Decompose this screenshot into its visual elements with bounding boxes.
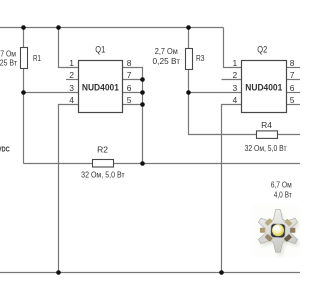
op-amp U2 / IC Q2 NUD4001 box	[242, 61, 287, 113]
shadow	[261, 213, 300, 256]
node Q2 pin4 to bottom rail	[219, 270, 224, 275]
svg-text:5: 5	[290, 95, 295, 105]
wire Q1 pin2 stub	[66, 79, 79, 81]
wire R1 bottom lead down to mid rail	[23, 69, 25, 164]
svg-text:NUD4001: NUD4001	[82, 83, 119, 93]
wire mid rail left of R2	[24, 163, 93, 165]
wire Q1 pin5	[123, 104, 143, 106]
svg-text:8: 8	[127, 58, 132, 68]
wire R4 right lead	[278, 134, 301, 136]
wire Q1 pin8 corner to common vertical	[123, 68, 143, 164]
LED dome	[272, 224, 284, 236]
LED package	[271, 224, 285, 238]
svg-text:3: 3	[232, 83, 237, 93]
svg-text:8: 8	[290, 58, 295, 68]
svg-text:3: 3	[69, 83, 74, 93]
wire R3 top lead	[188, 28, 190, 49]
node Q1 pin5	[140, 102, 145, 107]
svg-text:R3: R3	[196, 53, 205, 63]
svg-text:7: 7	[290, 70, 295, 80]
wire Q2 pin4 down to bottom rail	[222, 105, 242, 273]
LED photo: star MCPCB	[251, 204, 300, 258]
wire R1 top lead	[23, 28, 25, 48]
op-amp U1 / IC Q1 NUD4001 box	[79, 61, 123, 113]
node Q1 pin6	[140, 90, 145, 95]
svg-text:32 Ом, 5,0 Вт: 32 Ом, 5,0 Вт	[245, 143, 287, 153]
svg-text:7: 7	[127, 70, 132, 80]
wire top supply rail	[0, 28, 300, 273]
svg-text:4,0 Вт: 4,0 Вт	[274, 190, 292, 200]
wire Q2 pin1 drop from top rail	[224, 28, 242, 68]
svg-text:1: 1	[232, 58, 237, 68]
svg-text:NUD4001: NUD4001	[245, 83, 282, 93]
wire Q2 pin3 to R3 lead	[189, 92, 242, 94]
wire mid rail right of R2	[114, 163, 301, 165]
wire Q1 pin7	[123, 79, 143, 81]
solder pads	[260, 218, 295, 242]
node Q1 pin7	[140, 77, 145, 82]
svg-text:32 Ом, 5,0 Вт: 32 Ом, 5,0 Вт	[81, 169, 125, 179]
node common to mid rail	[140, 161, 145, 166]
wire bottom return rail	[0, 272, 300, 274]
star PCB body	[258, 210, 297, 253]
resistor R3	[186, 49, 193, 70]
svg-text:6,7 Ом: 6,7 Ом	[271, 179, 292, 189]
svg-text:4: 4	[232, 95, 237, 105]
resistor R4	[257, 131, 278, 139]
svg-text:4: 4	[69, 95, 74, 105]
wire Q1 pin1 drop from top rail	[59, 28, 79, 68]
node junction dots on top rail	[21, 25, 26, 30]
svg-text:0,25 Вт: 0,25 Вт	[153, 56, 181, 66]
wire Q2 pin2 stub	[222, 79, 242, 81]
svg-text:2: 2	[232, 70, 237, 80]
wire Q1 pin3 to R1 lead	[24, 92, 79, 94]
wire Q1 pin4 down to bottom rail	[59, 105, 79, 273]
wire Q2 pin5	[287, 104, 301, 106]
node R3/pin3 tap	[186, 90, 191, 95]
svg-text:R2: R2	[97, 145, 108, 155]
svg-text:5: 5	[127, 95, 132, 105]
svg-text:0,25 Вт: 0,25 Вт	[0, 58, 17, 68]
svg-text:6: 6	[290, 83, 295, 93]
wire Q2 pin6	[287, 92, 301, 94]
svg-text:1: 1	[69, 58, 74, 68]
svg-text:R4: R4	[261, 120, 272, 130]
svg-text:2: 2	[69, 70, 74, 80]
svg-text:12 VDC: 12 VDC	[0, 147, 10, 154]
resistor R2	[93, 160, 114, 168]
node R1/pin3 tap	[21, 90, 26, 95]
wire Q1 pin6	[123, 92, 143, 94]
svg-text:R1: R1	[33, 53, 41, 63]
svg-text:6: 6	[127, 83, 132, 93]
svg-text:2,7 Ом: 2,7 Ом	[155, 46, 178, 56]
svg-text:Q1: Q1	[95, 45, 105, 55]
wire Q2 pin7	[287, 79, 301, 81]
wire R3 bottom lead to R4 wire	[189, 70, 257, 135]
svg-text:Q2: Q2	[257, 45, 267, 55]
wire Q2 pin8	[287, 67, 301, 69]
resistor R1	[21, 48, 28, 69]
photo backdrop	[251, 204, 300, 258]
node Q1 pin4 to bottom rail	[56, 270, 61, 275]
